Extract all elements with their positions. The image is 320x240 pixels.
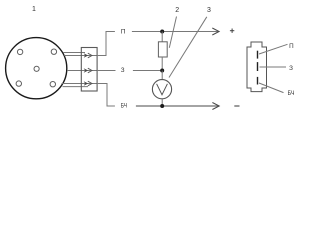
arrow head P (+) output <box>212 28 219 35</box>
wire rectifier top output up to P line <box>97 32 115 56</box>
leader pin Z to label <box>260 66 287 68</box>
svg-text:1: 1 <box>32 6 36 13</box>
wire Z node to voltmeter <box>161 71 163 80</box>
generator mounting hole bottom-left <box>16 81 21 86</box>
node on BCh wire <box>160 104 164 108</box>
wire BCh line to arrow <box>136 105 219 107</box>
wire middle (through diode) <box>67 70 97 72</box>
wire bottom pair lower <box>63 86 89 88</box>
minus sign <box>234 105 239 107</box>
leader line 2 to resistor <box>169 17 176 48</box>
generator G1 body circle <box>6 38 67 99</box>
svg-text:2: 2 <box>175 7 179 14</box>
generator mounting hole bottom-right <box>50 82 55 87</box>
connector pin P <box>257 51 259 59</box>
wire rectifier bottom output down to BCh line <box>97 84 115 107</box>
generator center hole <box>34 66 39 71</box>
plus sign <box>230 29 234 33</box>
wire top pair upper (from hole to rectifier) <box>63 52 85 54</box>
svg-text:З: З <box>289 65 293 72</box>
wire resistor to Z node <box>161 57 163 71</box>
wire bottom pair upper (from hole through diode) <box>62 83 98 85</box>
svg-text:З: З <box>121 67 125 74</box>
leader pin P to label <box>259 44 288 54</box>
wire top pair lower (through diode to box edge) <box>64 55 97 57</box>
svg-text:БЧ: БЧ <box>121 103 127 110</box>
connector pin BCh <box>257 77 259 85</box>
svg-text:П: П <box>121 28 126 35</box>
wire P node to resistor <box>161 32 163 42</box>
node on Z wire <box>160 69 164 73</box>
wire rectifier middle output to Z label <box>97 70 116 72</box>
leader line 3 to voltmeter <box>169 17 207 78</box>
wire P line to arrow <box>132 31 219 33</box>
diode VD3 (bottom) <box>84 81 92 86</box>
rectifier block box <box>81 48 97 92</box>
diode VD1 (top) <box>84 53 92 58</box>
generator mounting hole top-left <box>17 49 22 54</box>
diode VD2 (middle) <box>84 68 92 73</box>
svg-text:П: П <box>289 43 294 50</box>
wire Z label to node <box>133 70 164 72</box>
svg-text:3: 3 <box>207 7 211 14</box>
arrow head BCh (-) output <box>212 103 219 110</box>
resistor R (2) <box>158 42 167 57</box>
svg-text:БЧ: БЧ <box>288 90 295 97</box>
connector housing <box>247 42 267 92</box>
wire voltmeter to BCh wire <box>161 99 163 106</box>
node on P wire <box>160 30 164 34</box>
leader pin BCh to label <box>259 83 284 93</box>
voltmeter V (3) <box>152 80 171 99</box>
generator mounting hole top-right <box>51 49 56 54</box>
connector pin Z <box>257 62 259 71</box>
